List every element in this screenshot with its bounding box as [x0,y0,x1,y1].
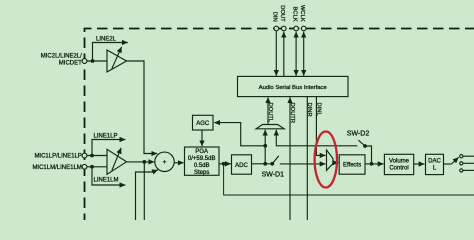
dashed chip boundary [85,29,474,222]
block DAC L [426,154,444,174]
wire AGC to PGA [201,130,203,146]
wire DINR down from serial interface [306,97,308,221]
svg-text:BCLK: BCLK [291,7,297,22]
gain arrow of MIC2L amp [112,47,122,69]
pin DIN [274,26,279,31]
wire DAC output [444,163,452,165]
summer left mixer [155,152,174,171]
node bypass junction [263,144,267,148]
wire amp2 output to summer top input [127,61,158,154]
svg-text:DAC: DAC [428,159,441,165]
svg-text:DOUTL: DOUTL [267,103,273,123]
svg-text:SW-D2: SW-D2 [347,131,370,138]
svg-text:DINR: DINR [306,103,312,117]
node effects output junction [370,162,374,166]
svg-text:AGC: AGC [196,121,210,127]
wire Volume Control to DAC [414,163,425,165]
pin MIC2L/LINE2L/MICDET [82,59,87,64]
node SW-D2 pivot [363,144,367,148]
svg-text:DINL: DINL [315,103,321,117]
wire PGA to ADC [219,163,231,165]
wire DOUTR up to serial interface [289,97,291,221]
svg-text:LINE1LP: LINE1LP [94,134,118,140]
wire DOUTL mux to serial interface [267,97,269,124]
svg-text:0.5dB: 0.5dB [194,163,210,169]
svg-text:Effects: Effects [343,163,361,169]
svg-text:0/+59.5dB: 0/+59.5dB [188,156,216,162]
svg-text:LINE1LM: LINE1LM [94,178,119,184]
wire LINE2L branch [93,43,128,62]
wire bypass to DOUTL mux right input [276,130,357,146]
node ADC output junction [263,162,267,166]
svg-text:MICDET: MICDET [59,60,82,66]
svg-text:PGA: PGA [195,149,208,155]
pin BCLK [294,26,299,31]
wire LINE1LM branch [92,167,125,185]
node MIC1LP junction [90,154,94,158]
op-amp MIC2L input amp [107,50,127,72]
wire summer to PGA [174,162,184,164]
svg-text:SW-D1: SW-D1 [262,171,285,178]
svg-text:MIC1LP/LINE1LP: MIC1LP/LINE1LP [34,154,81,160]
node output contact 1 [460,155,463,158]
node ADC input tap [222,162,226,166]
wire DOUT from serial interface [283,32,285,77]
pin DOUT [282,26,287,31]
block Effects [339,155,365,174]
block Audio Serial Bus Interface [238,76,349,96]
wire tap down and right along bottom [224,164,474,195]
gain arrow of MIC1L amp [112,148,121,171]
switch DAC output selector arm [452,157,459,164]
svg-text:DOUT: DOUT [279,5,285,22]
node MIC1LM junction [90,165,94,169]
svg-text:ADC: ADC [235,163,248,169]
mux digital input select (red circled) [327,150,333,170]
wire Effects to Volume Control [365,163,384,165]
wire ADC node up to DOUTL mux left input [264,130,266,164]
wire LINE1LP branch [92,140,125,156]
plus sign in summer [163,160,166,163]
wire SW-D2 down to effects output node [365,146,372,164]
wire SW-D1 to decimation mux bottom input [280,163,326,165]
svg-text:Steps: Steps [194,170,209,176]
node output contact 3 [460,169,463,172]
svg-text:Volume: Volume [389,159,410,165]
wire BCLK bidirectional [295,32,297,76]
wire MIC1LP pin to amp [87,155,107,157]
node amp1 output tap [142,160,146,164]
mux DOUTL trapezoid [256,125,284,129]
wire ADC tap to AGC input [214,123,265,146]
node SW-D1 pivot [270,162,274,166]
wire third summer input from bottom [136,170,158,221]
node MIC2L junction [91,59,95,63]
wire mux to Effects [333,162,339,164]
wire output 1 [463,155,474,157]
pin WCLK [301,26,306,31]
pin MIC1LP/LINE1LP [82,153,87,158]
wire DINL from serial interface to mux top input [316,97,325,156]
switch SW-D1 arm [272,156,279,164]
wire DIN to serial interface [275,31,277,76]
wire MIC2L pin to amp [87,60,107,62]
wire amp1 output to summer [127,161,155,163]
svg-text:WCLK: WCLK [299,5,305,22]
block AGC [193,115,214,130]
wire amp1 tap down to bottom [143,162,145,221]
pin MIC1LM/LINE1LM [82,164,87,169]
svg-text:DIN: DIN [272,12,278,22]
wire output 3 [463,169,474,171]
svg-text:MIC1LM/LINE1LM: MIC1LM/LINE1LM [32,165,81,171]
wire output 2 [463,162,474,164]
wire MIC1LM pin to amp [87,166,107,168]
block ADC [232,155,252,174]
wire ADC output to SW-D1 [252,163,273,165]
svg-text:Control: Control [389,166,408,172]
block Volume Control [384,154,413,174]
svg-text:Audio Serial Bus Interface: Audio Serial Bus Interface [259,85,328,91]
svg-text:DOUTR: DOUTR [289,103,295,124]
node output contact 2 [460,162,463,165]
op-amp MIC1L differential amp [107,149,127,174]
red highlight ellipse [315,132,337,188]
wire WCLK bidirectional [303,32,305,76]
block PGA [185,147,220,175]
svg-text:LINE2L: LINE2L [96,37,117,43]
switch SW-D2 arm [358,140,365,146]
svg-text:MIC2L/LINE2L/: MIC2L/LINE2L/ [41,53,82,59]
